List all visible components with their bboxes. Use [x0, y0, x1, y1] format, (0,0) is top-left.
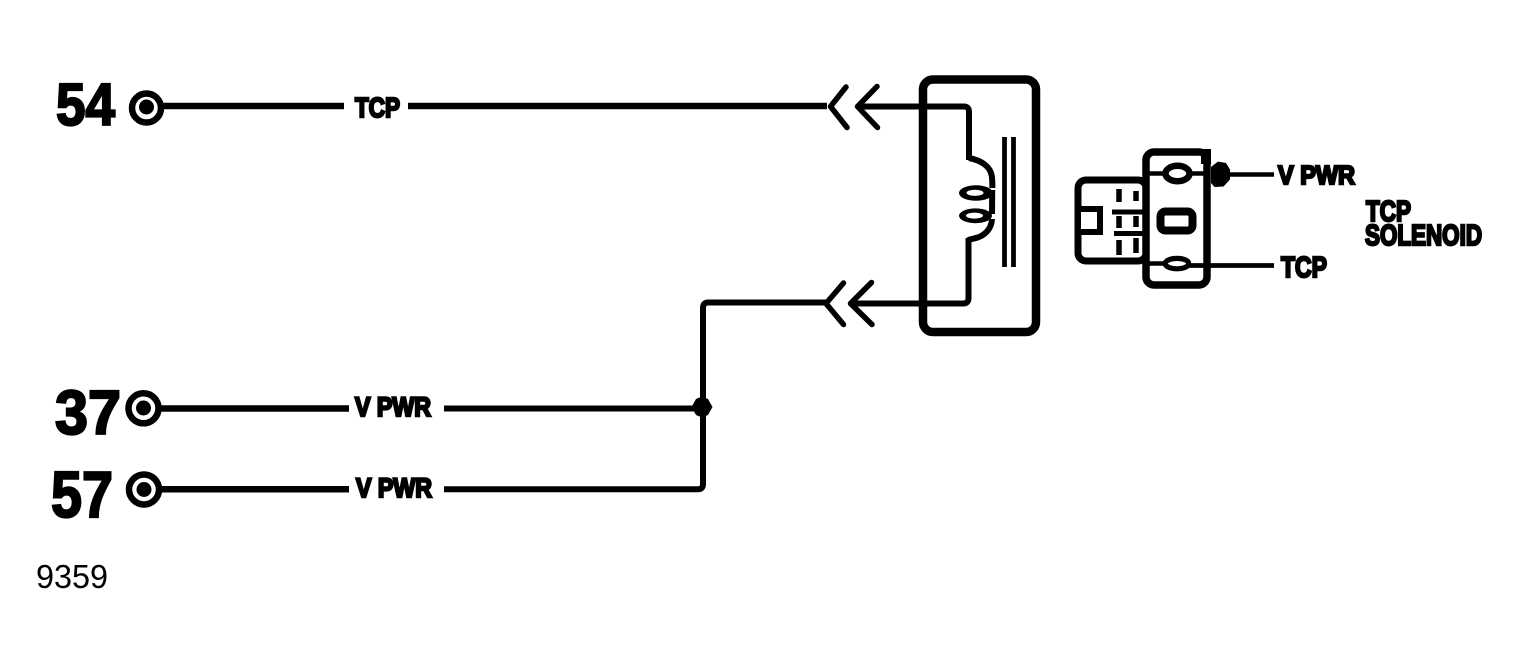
solenoid coil loop 1 [959, 185, 993, 200]
connector right shell [1146, 152, 1207, 285]
connector terminal blob [1201, 149, 1230, 187]
junction dot [692, 397, 713, 418]
wire TCP left segment [161, 103, 344, 110]
component label TCP SOLENOID [1365, 196, 1482, 252]
wire 37 left segment [158, 405, 349, 412]
ring terminal 37 [129, 393, 159, 423]
solenoid core line 2 [1011, 137, 1016, 267]
solenoid body box [923, 80, 1036, 333]
connector face dash r1c2 [1133, 191, 1139, 201]
connector face bar 1 [1112, 210, 1146, 215]
svg-text:37: 37 [55, 379, 121, 448]
wire out of solenoid bottom [851, 238, 969, 304]
connector left shell [1078, 180, 1146, 261]
connector cavity oval top [1166, 166, 1190, 181]
svg-text:57: 57 [51, 458, 113, 531]
wire into solenoid top [858, 107, 970, 161]
inline connector chevron A2 [858, 87, 878, 128]
svg-text:54: 54 [56, 72, 115, 138]
inline connector chevron B1 [826, 283, 844, 325]
inline connector chevron B2 [851, 283, 873, 325]
svg-text:SOLENOID: SOLENOID [1365, 220, 1482, 252]
solenoid coil upper hook [969, 158, 992, 188]
wire V PWR riser [444, 303, 828, 490]
ring terminal 54 [132, 94, 161, 123]
wire stub TCP [1188, 263, 1274, 268]
connector face dash r2c1 [1116, 216, 1122, 228]
connector keyway [1078, 209, 1100, 232]
wire 57 left segment [159, 486, 349, 493]
connector cavity oval bottom [1165, 258, 1189, 268]
svg-text:V PWR: V PWR [355, 392, 431, 422]
connector pin line bottom left [1146, 261, 1166, 266]
connector face dash r1c1 [1116, 189, 1122, 202]
svg-text:9359: 9359 [36, 558, 108, 595]
solenoid coil loop 2 [959, 208, 992, 223]
connector face dash r3c1 [1116, 240, 1122, 255]
solenoid core line 1 [1002, 137, 1007, 267]
connector face dash r3c2 [1133, 238, 1139, 253]
connector pin line top right [1190, 171, 1208, 176]
svg-text:TCP: TCP [1281, 252, 1327, 284]
connector cavity rect middle [1161, 212, 1193, 231]
solenoid coil lower hook [969, 219, 993, 240]
ring terminal 57 [129, 475, 159, 505]
wire V PWR from 37 [444, 406, 703, 412]
svg-text:TCP: TCP [355, 92, 400, 123]
connector face dash r2c2 [1133, 216, 1139, 227]
inline connector chevron A1 [831, 87, 848, 128]
wire stub V PWR [1228, 172, 1274, 177]
svg-text:V PWR: V PWR [1278, 160, 1355, 190]
solenoid coil loop join [989, 190, 995, 214]
connector pin line top left [1146, 171, 1165, 176]
svg-text:V PWR: V PWR [356, 473, 432, 503]
connector face bar 2 [1114, 231, 1146, 236]
wire TCP right segment [408, 103, 827, 110]
